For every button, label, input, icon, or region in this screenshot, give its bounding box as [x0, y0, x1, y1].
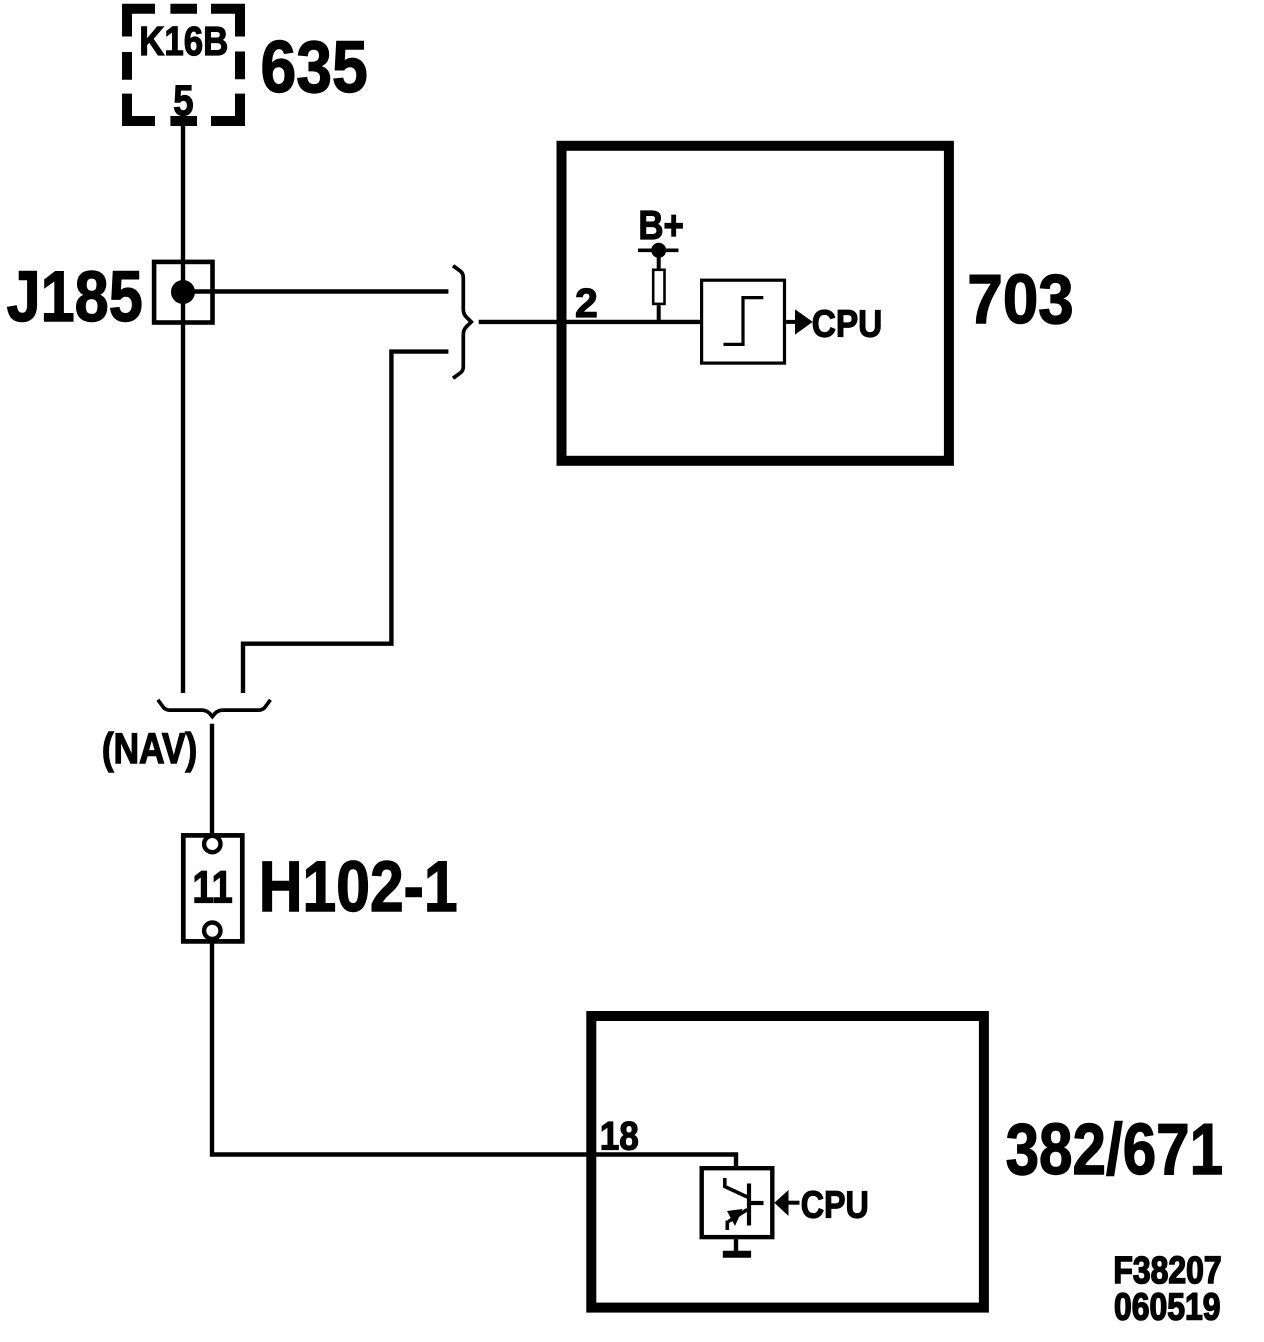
connector H102-1 box: [183, 835, 242, 941]
H102-1 bottom terminal circle: [204, 923, 220, 939]
output transistor box: [702, 1168, 773, 1237]
svg-text:2: 2: [575, 280, 598, 326]
resistor R pull-up: [657, 250, 661, 268]
wire from K16B pin 5 down through J185 junction: [181, 126, 185, 693]
svg-text:060519: 060519: [1114, 1286, 1220, 1328]
step waveform: [724, 298, 764, 345]
svg-text:B+: B+: [638, 204, 684, 249]
upper bundle brace }: [455, 267, 472, 377]
junction J185 box: [154, 262, 212, 323]
wire lower branch to upper brace: [243, 352, 448, 693]
ground: [734, 1239, 738, 1251]
junction J185 dot: [171, 280, 195, 304]
arrow to CPU (703): [786, 320, 796, 324]
transistor symbol: [725, 1178, 764, 1230]
ECU box 382/671: [591, 1016, 984, 1308]
H102-1 top terminal circle: [204, 836, 220, 852]
svg-text:(NAV): (NAV): [102, 725, 197, 773]
svg-text:5: 5: [173, 77, 193, 124]
svg-text:J185: J185: [7, 258, 143, 338]
svg-text:18: 18: [600, 1113, 639, 1158]
svg-text:382/671: 382/671: [1006, 1110, 1223, 1191]
B+ supply symbol: [638, 249, 679, 253]
lower bundle brace (NAV): [159, 701, 269, 716]
relay K16B dashed box: [127, 9, 240, 121]
wire brace to H102-1: [210, 724, 214, 834]
wire H102-1 to box 382/671 pin 18: [212, 942, 736, 1166]
arrow from CPU into transistor: [774, 1190, 788, 1216]
svg-text:K16B: K16B: [139, 19, 228, 64]
svg-text:H102-1: H102-1: [259, 847, 458, 927]
svg-text:11: 11: [192, 862, 232, 913]
svg-text:703: 703: [967, 261, 1073, 338]
schmitt trigger box: [702, 280, 785, 363]
wire J185 to upper brace: [183, 289, 448, 293]
wire brace to box 703 pin 2: [479, 320, 700, 324]
svg-text:CPU: CPU: [801, 1184, 869, 1226]
svg-text:CPU: CPU: [812, 303, 883, 345]
ECU box 703: [562, 146, 949, 461]
svg-text:635: 635: [261, 25, 368, 108]
